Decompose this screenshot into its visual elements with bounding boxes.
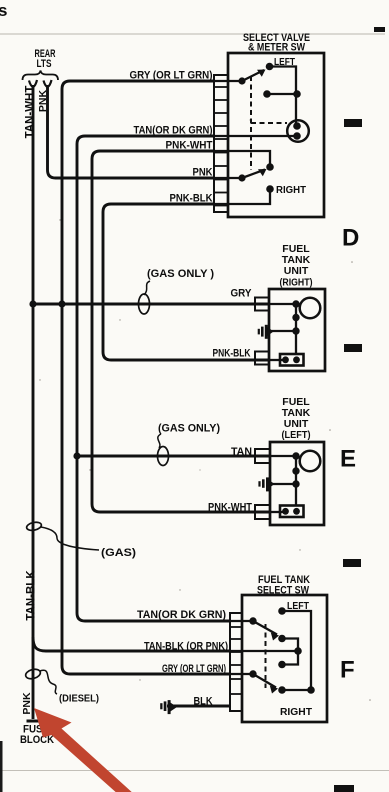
svg-text:PNK-BLK: PNK-BLK xyxy=(213,348,251,360)
svg-text:TAN-BLK (OR PNK): TAN-BLK (OR PNK) xyxy=(144,641,228,653)
svg-text:(GAS ONLY): (GAS ONLY) xyxy=(158,423,220,435)
svg-text:BLOCK: BLOCK xyxy=(20,734,54,746)
svg-text:(DIESEL): (DIESEL) xyxy=(59,693,99,705)
svg-text:(GAS ONLY ): (GAS ONLY ) xyxy=(147,268,214,280)
svg-text:F: F xyxy=(340,657,355,684)
svg-text:s: s xyxy=(0,1,7,20)
svg-text:TAN(OR DK GRN): TAN(OR DK GRN) xyxy=(137,609,226,621)
svg-text:RIGHT: RIGHT xyxy=(280,706,313,718)
svg-text:GRY: GRY xyxy=(231,288,253,300)
svg-text:GRY (OR LT GRN): GRY (OR LT GRN) xyxy=(130,70,213,82)
svg-text:BLK: BLK xyxy=(194,696,213,708)
svg-text:PNK-BLK: PNK-BLK xyxy=(170,193,213,205)
svg-text:RIGHT: RIGHT xyxy=(276,184,307,196)
svg-text:(GAS): (GAS) xyxy=(101,547,136,559)
svg-text:& METER SW: & METER SW xyxy=(248,42,305,54)
svg-text:D: D xyxy=(342,225,359,252)
svg-text:PNK: PNK xyxy=(21,692,33,715)
svg-text:PNK-WHT: PNK-WHT xyxy=(166,140,213,152)
svg-text:LEFT: LEFT xyxy=(274,56,295,68)
svg-text:SELECT SW: SELECT SW xyxy=(257,585,309,597)
svg-text:PNK: PNK xyxy=(193,167,213,179)
svg-text:PNK-WHT: PNK-WHT xyxy=(208,502,252,514)
svg-text:LTS: LTS xyxy=(37,58,52,70)
svg-text:LEFT: LEFT xyxy=(287,600,309,612)
svg-text:UNIT: UNIT xyxy=(284,265,309,277)
svg-text:TAN-BLK: TAN-BLK xyxy=(26,570,38,621)
svg-text:TAN: TAN xyxy=(231,446,252,458)
svg-text:GRY (OR LT GRN): GRY (OR LT GRN) xyxy=(162,663,226,675)
svg-text:E: E xyxy=(340,446,356,473)
svg-text:PNK: PNK xyxy=(37,89,49,112)
svg-text:TAN(OR DK GRN): TAN(OR DK GRN) xyxy=(134,125,213,137)
svg-text:TAN-WHT: TAN-WHT xyxy=(25,86,37,139)
svg-text:(LEFT): (LEFT) xyxy=(282,429,311,441)
svg-text:(RIGHT): (RIGHT) xyxy=(280,277,313,289)
